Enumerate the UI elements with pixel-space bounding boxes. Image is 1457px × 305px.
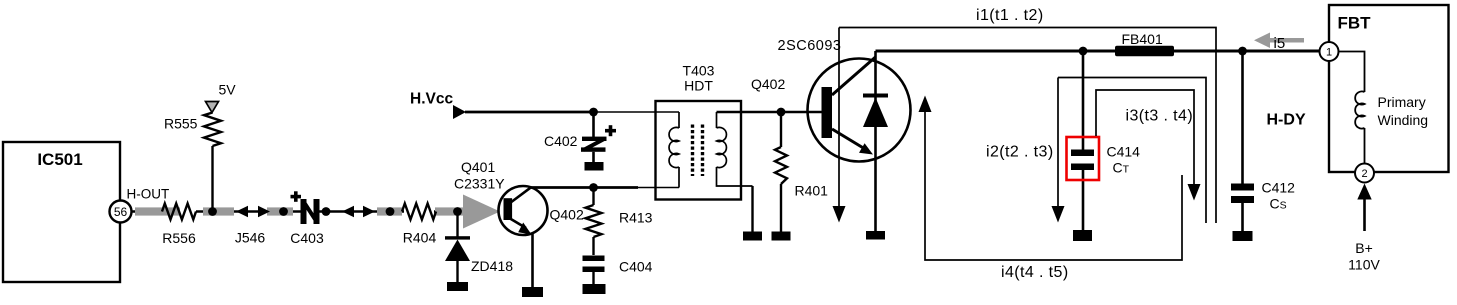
svg-text:C402: C402 — [544, 133, 578, 149]
ground for C402 — [585, 162, 604, 171]
wire Q402 collector/damper vertical — [874, 51, 877, 231]
svg-text:HDT: HDT — [684, 78, 713, 94]
ground for Q401 emitter — [522, 287, 543, 297]
wire T403 secondary to Q402 base y=112 — [717, 111, 823, 114]
current loop i4 — [919, 96, 1183, 282]
ground for damper diode — [866, 231, 885, 240]
svg-text:Q402: Q402 — [751, 76, 785, 92]
resistor R404 — [402, 204, 436, 246]
B+ 110V input arrow — [1348, 184, 1380, 273]
transistor Q401 C2331Y — [454, 159, 584, 235]
ground for C404 — [583, 284, 606, 294]
svg-text:i5: i5 — [1274, 35, 1286, 52]
svg-text:110V: 110V — [1348, 257, 1380, 273]
node R401 tap — [777, 108, 786, 117]
svg-text:Winding: Winding — [1378, 112, 1429, 128]
ground for C412 — [1233, 231, 1253, 241]
node C412 tap — [1238, 47, 1247, 56]
svg-text:R413: R413 — [619, 210, 653, 226]
ground for ZD418 — [447, 282, 468, 291]
wire ZD418 branch — [456, 212, 458, 283]
svg-text:H.Vcc: H.Vcc — [410, 91, 453, 108]
current arrow i5 gray — [1254, 33, 1304, 53]
svg-text:C404: C404 — [619, 259, 653, 275]
svg-text:i2(t2 . t3): i2(t2 . t3) — [986, 144, 1054, 161]
T403 primary winding — [669, 112, 679, 188]
wire direction arrows after C403 — [342, 206, 375, 217]
node R413 tap — [589, 183, 598, 192]
svg-text:C2331Y: C2331Y — [454, 176, 505, 192]
node junction at R555 tap — [208, 207, 217, 216]
svg-text:C403: C403 — [290, 230, 324, 246]
pin 56 H-OUT of IC501 — [110, 187, 170, 223]
resistor R401 — [775, 112, 828, 232]
svg-text:i3(t3 . t4): i3(t3 . t4) — [1126, 108, 1194, 125]
svg-text:R556: R556 — [162, 230, 196, 246]
node after C403 — [322, 207, 331, 216]
pin 1 of FBT — [1320, 42, 1339, 61]
transistor Q402 2SC6093 — [778, 38, 911, 162]
svg-text:H-DY: H-DY — [1267, 112, 1306, 129]
H.Vcc input label and arrow — [410, 91, 466, 120]
svg-text:2: 2 — [1361, 168, 1367, 180]
svg-text:FB401: FB401 — [1122, 31, 1163, 47]
wire main signal path y=211.5 — [132, 210, 471, 213]
wire Q401 collector line y=187.5 — [531, 186, 639, 189]
svg-text:FBT: FBT — [1338, 14, 1372, 33]
wire R555 branch vertical — [211, 146, 213, 212]
svg-text:B+: B+ — [1355, 240, 1373, 256]
jumper J546 arrows on wire — [235, 206, 270, 246]
resistor R413 — [586, 188, 653, 256]
svg-text:5V: 5V — [219, 82, 237, 98]
capacitor C414 CT — [1071, 51, 1140, 230]
svg-text:Q402: Q402 — [550, 207, 584, 223]
wire top rail y=51 — [876, 50, 1320, 53]
capacitor C412 CS — [1231, 51, 1295, 231]
svg-text:H-OUT: H-OUT — [127, 187, 170, 202]
IC IC501 — [3, 142, 120, 282]
ferrite bead FB401 — [1115, 31, 1174, 56]
current loop i1 — [833, 7, 1217, 223]
svg-text:i4(t4 . t5): i4(t4 . t5) — [1001, 264, 1069, 281]
svg-text:1: 1 — [1326, 47, 1332, 59]
drive arrow gray into Q401 base — [463, 195, 500, 229]
svg-text:R404: R404 — [403, 230, 437, 246]
ground for R401 — [772, 232, 791, 241]
power symbol 5V supply triangle — [206, 82, 237, 113]
resistor R556 — [162, 204, 196, 247]
ground for C414 — [1073, 230, 1092, 241]
svg-text:Q401: Q401 — [461, 159, 495, 175]
svg-text:i1(t1 . t2): i1(t1 . t2) — [976, 7, 1044, 24]
svg-text:C414: C414 — [1107, 144, 1141, 160]
wire H.Vcc rail y=112 — [465, 111, 594, 114]
capacitor C402 polarized — [544, 112, 616, 162]
T403 core dashed lines — [693, 125, 703, 177]
svg-text:2SC6093: 2SC6093 — [778, 38, 842, 54]
svg-text:R555: R555 — [164, 116, 198, 132]
svg-text:Primary: Primary — [1378, 94, 1426, 110]
svg-text:R401: R401 — [795, 183, 829, 199]
svg-text:T403: T403 — [683, 63, 715, 79]
current loop i3 — [1096, 90, 1201, 201]
resistor R555 — [164, 113, 221, 147]
wire gray highlight segments on signal path — [135, 207, 463, 215]
capacitor C403 polarized — [290, 191, 324, 246]
zener diode ZD418 — [445, 236, 513, 274]
current loop i2 — [986, 78, 1206, 224]
FBT primary winding coil — [1355, 91, 1428, 128]
node at ZD418 tap — [453, 207, 462, 216]
T403 secondary winding — [717, 112, 753, 232]
FBT primary winding wire — [1339, 52, 1365, 164]
node before C403 — [279, 207, 288, 216]
svg-text:IC501: IC501 — [37, 150, 82, 169]
node C414 tap — [1079, 47, 1088, 56]
ground for T403 secondary — [743, 232, 762, 241]
FBT box — [1329, 5, 1449, 172]
transformer T403 HDT box — [656, 63, 742, 200]
svg-text:56: 56 — [114, 205, 128, 219]
svg-text:ZD418: ZD418 — [471, 258, 513, 274]
capacitor C404 — [583, 256, 653, 285]
node C402 tap — [589, 108, 598, 117]
damper diode inside Q402 — [863, 94, 888, 128]
pin 2 of FBT — [1355, 164, 1374, 183]
node before R404 — [386, 207, 395, 216]
svg-text:J546: J546 — [235, 230, 266, 246]
wire Q401 emitter to ground — [531, 233, 534, 287]
svg-text:C412: C412 — [1262, 180, 1296, 196]
highlight red box around C414 — [1067, 137, 1100, 180]
